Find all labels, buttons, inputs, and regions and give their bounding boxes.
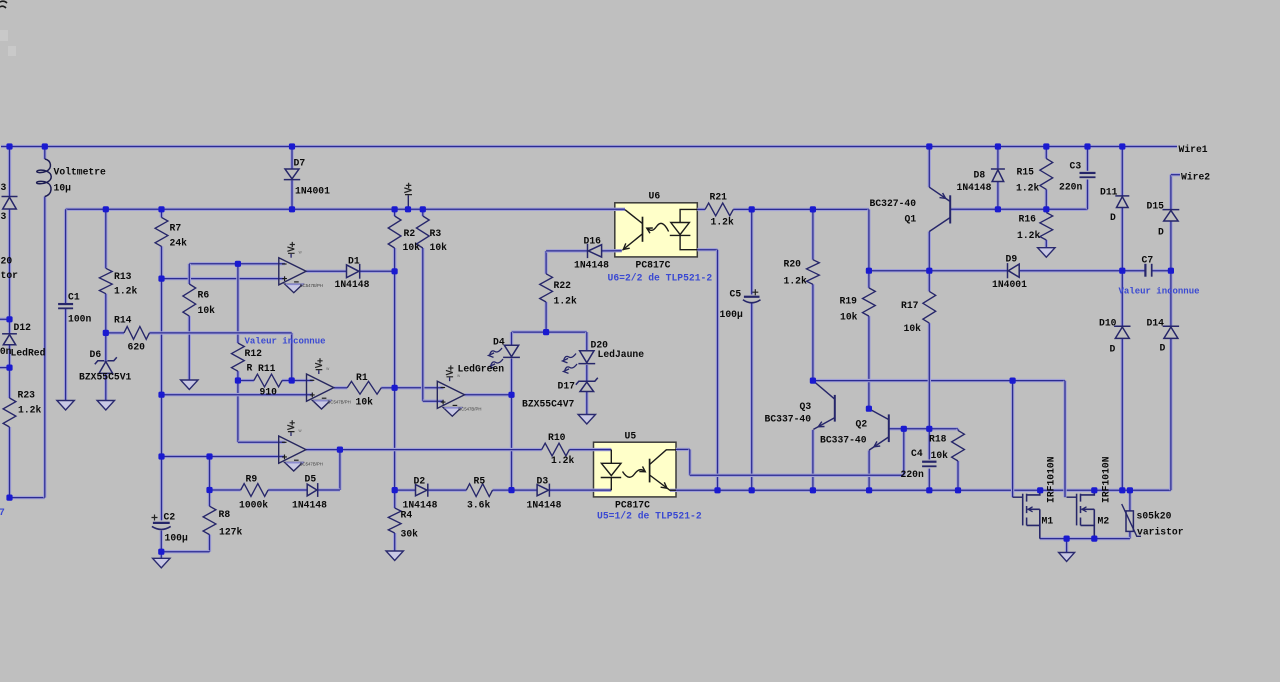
svg-text:1N4001: 1N4001: [992, 279, 1027, 290]
svg-text:1000k: 1000k: [239, 500, 268, 511]
svg-text:BC337-40: BC337-40: [765, 414, 812, 425]
svg-text:IRF1010N: IRF1010N: [1046, 456, 1057, 503]
svg-text:R14: R14: [114, 315, 132, 326]
svg-text:1.2k: 1.2k: [711, 217, 734, 228]
svg-text:10µ: 10µ: [54, 183, 72, 194]
svg-text:R12: R12: [245, 348, 263, 359]
svg-text:R17: R17: [901, 300, 919, 311]
svg-text:Wire1: Wire1: [1179, 144, 1208, 155]
svg-text:IRF1010N: IRF1010N: [1101, 456, 1112, 503]
svg-text:1.2k: 1.2k: [1017, 230, 1040, 241]
svg-text:R18: R18: [929, 434, 947, 445]
svg-text:R1: R1: [356, 372, 368, 383]
svg-text:D9: D9: [1006, 254, 1018, 265]
svg-text:R22: R22: [554, 280, 572, 291]
svg-text:D: D: [1110, 344, 1116, 355]
svg-text:U5: U5: [625, 431, 637, 442]
svg-text:910: 910: [260, 387, 278, 398]
svg-text:Valeur inconnue: Valeur inconnue: [245, 337, 326, 347]
svg-text:BC547B/PH: BC547B/PH: [328, 399, 351, 404]
svg-text:D4: D4: [493, 337, 505, 348]
svg-text:10k: 10k: [198, 305, 216, 316]
svg-text:R3: R3: [430, 228, 442, 239]
svg-text:1N4148: 1N4148: [335, 279, 370, 290]
svg-text:620: 620: [128, 342, 146, 353]
svg-text:R16: R16: [1019, 214, 1037, 225]
svg-text:D8: D8: [974, 170, 986, 181]
svg-text:10k: 10k: [840, 312, 858, 323]
svg-text:D14: D14: [1147, 318, 1165, 329]
svg-text:D12: D12: [14, 322, 32, 333]
svg-text:7: 7: [0, 507, 5, 518]
svg-text:s05k20: s05k20: [1137, 511, 1172, 522]
svg-text:D5: D5: [305, 474, 317, 485]
svg-text:R4: R4: [401, 510, 413, 521]
svg-text:D: D: [1160, 343, 1166, 354]
svg-text:20: 20: [1, 256, 13, 267]
svg-text:LedRed: LedRed: [11, 348, 46, 359]
svg-text:1.2k: 1.2k: [554, 296, 577, 307]
svg-text:C4: C4: [911, 448, 923, 459]
svg-text:D2: D2: [414, 476, 426, 487]
svg-text:3.6k: 3.6k: [467, 500, 490, 511]
svg-text:R11: R11: [258, 363, 276, 374]
svg-text:1.2k: 1.2k: [784, 276, 807, 287]
svg-text:127k: 127k: [219, 527, 242, 538]
svg-text:R13: R13: [114, 271, 132, 282]
svg-text:1.2k: 1.2k: [18, 405, 41, 416]
svg-text:C5: C5: [730, 289, 742, 300]
svg-text:Voltmetre: Voltmetre: [54, 167, 107, 178]
svg-text:3: 3: [1, 182, 7, 193]
svg-text:D10: D10: [1099, 318, 1117, 329]
svg-text:U6: U6: [649, 191, 661, 202]
svg-text:1N4148: 1N4148: [957, 182, 992, 193]
svg-text:220n: 220n: [901, 469, 924, 480]
svg-text:M1: M1: [1042, 516, 1054, 527]
svg-text:C7: C7: [1142, 255, 1154, 266]
svg-text:100µ: 100µ: [165, 533, 188, 544]
svg-text:BC547B/PH: BC547B/PH: [300, 283, 323, 288]
svg-text:Q1: Q1: [905, 214, 917, 225]
svg-text:BZX55C4V7: BZX55C4V7: [522, 399, 575, 410]
svg-text:BC327-40: BC327-40: [870, 198, 917, 209]
svg-text:D: D: [1110, 212, 1116, 223]
svg-text:Valeur inconnue: Valeur inconnue: [1119, 287, 1200, 297]
svg-text:24k: 24k: [170, 238, 188, 249]
svg-text:tor: tor: [1, 270, 19, 281]
svg-text:10k: 10k: [904, 323, 922, 334]
svg-text:R: R: [247, 363, 253, 374]
svg-text:1N4148: 1N4148: [292, 500, 327, 511]
svg-text:D15: D15: [1147, 201, 1165, 212]
svg-text:R19: R19: [840, 296, 858, 307]
svg-text:R10: R10: [548, 432, 566, 443]
svg-text:D7: D7: [294, 158, 306, 169]
svg-text:D6: D6: [90, 349, 102, 360]
svg-text:10k: 10k: [356, 397, 374, 408]
svg-text:D1: D1: [348, 256, 360, 267]
svg-text:PC817C: PC817C: [615, 500, 650, 511]
svg-text:10k: 10k: [430, 242, 448, 253]
svg-text:D: D: [1158, 227, 1164, 238]
svg-text:1N4148: 1N4148: [574, 260, 609, 271]
svg-text:10k: 10k: [403, 242, 421, 253]
svg-text:Q2: Q2: [856, 419, 868, 430]
svg-text:D17: D17: [558, 381, 576, 392]
svg-text:30k: 30k: [401, 529, 419, 540]
svg-text:BC337-40: BC337-40: [820, 435, 867, 446]
svg-text:R5: R5: [474, 476, 486, 487]
svg-text:varistor: varistor: [1137, 527, 1184, 538]
svg-text:D11: D11: [1100, 187, 1118, 198]
svg-text:220n: 220n: [1059, 182, 1082, 193]
svg-text:C1: C1: [68, 292, 80, 303]
svg-text:PC817C: PC817C: [636, 260, 671, 271]
svg-text:10k: 10k: [931, 450, 949, 461]
svg-text:D3: D3: [537, 476, 549, 487]
svg-text:Wire2: Wire2: [1181, 172, 1210, 183]
svg-text:BC547B/PH: BC547B/PH: [300, 461, 323, 466]
svg-text:BZX55C5V1: BZX55C5V1: [79, 372, 132, 383]
svg-text:LedGreen: LedGreen: [458, 364, 505, 375]
svg-text:1N4001: 1N4001: [295, 186, 330, 197]
svg-text:1N4148: 1N4148: [527, 500, 562, 511]
svg-text:R21: R21: [710, 192, 728, 203]
svg-text:U5=1/2 de TLP521-2: U5=1/2 de TLP521-2: [597, 511, 702, 522]
svg-text:R20: R20: [784, 259, 802, 270]
svg-text:R2: R2: [404, 228, 416, 239]
svg-text:R7: R7: [170, 223, 182, 234]
svg-text:100µ: 100µ: [720, 309, 743, 320]
svg-text:C2: C2: [164, 512, 176, 523]
svg-text:C3: C3: [1070, 161, 1082, 172]
svg-text:R15: R15: [1017, 167, 1035, 178]
svg-text:1.2k: 1.2k: [1016, 183, 1039, 194]
svg-text:Q3: Q3: [800, 401, 812, 412]
svg-text:R23: R23: [18, 390, 36, 401]
svg-text:R9: R9: [246, 474, 258, 485]
svg-text:U6=2/2 de TLP521-2: U6=2/2 de TLP521-2: [608, 273, 713, 284]
svg-text:R8: R8: [219, 509, 231, 520]
svg-text:BC547B/PH: BC547B/PH: [458, 407, 481, 412]
svg-text:1.2k: 1.2k: [114, 286, 137, 297]
svg-text:100n: 100n: [68, 314, 91, 325]
svg-text:LedJaune: LedJaune: [598, 349, 645, 360]
svg-text:3: 3: [1, 211, 7, 222]
svg-text:1.2k: 1.2k: [551, 455, 574, 466]
svg-text:M2: M2: [1098, 516, 1110, 527]
svg-text:R6: R6: [198, 290, 210, 301]
svg-text:D16: D16: [584, 236, 602, 247]
